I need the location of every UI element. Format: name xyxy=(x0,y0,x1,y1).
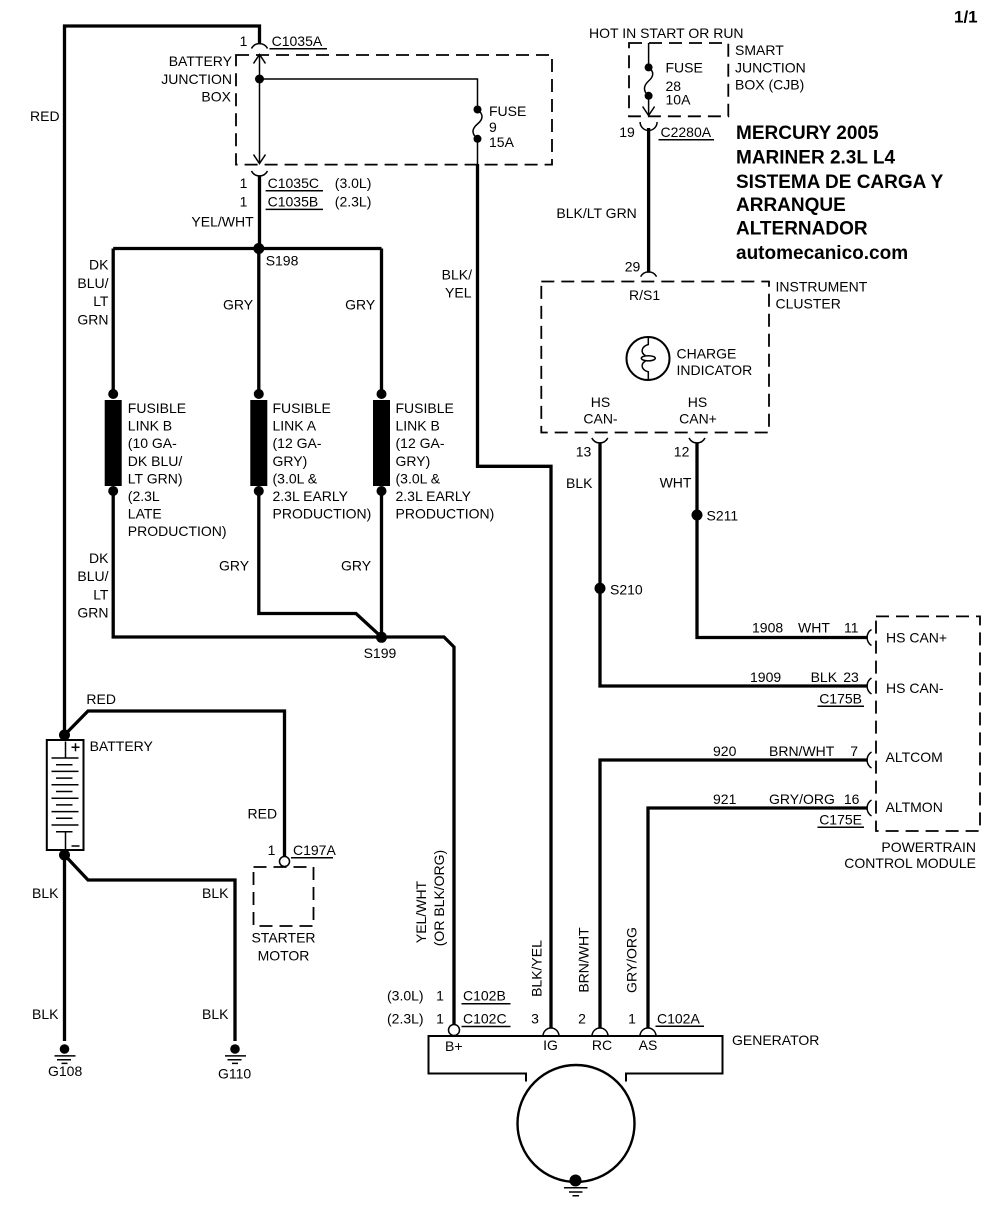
splice S210 xyxy=(595,583,606,594)
generator ground node xyxy=(570,1175,582,1187)
svg-text:1/1: 1/1 xyxy=(954,8,978,27)
svg-text:STARTER: STARTER xyxy=(251,930,315,946)
svg-text:1: 1 xyxy=(240,175,248,191)
connector B+ circle xyxy=(449,1025,460,1036)
svg-text:POWERTRAIN: POWERTRAIN xyxy=(881,839,976,855)
svg-text:RC: RC xyxy=(592,1037,612,1053)
svg-text:2.3L EARLY: 2.3L EARLY xyxy=(396,488,472,504)
svg-text:HS CAN+: HS CAN+ xyxy=(886,630,947,646)
svg-text:1: 1 xyxy=(436,988,444,1004)
svg-text:C1035A: C1035A xyxy=(272,33,323,49)
wire into fuse 28 xyxy=(648,43,650,67)
svg-text:S198: S198 xyxy=(266,252,299,268)
svg-text:9: 9 xyxy=(489,119,497,135)
generator pin RC arc xyxy=(592,1028,608,1036)
wire mid link to S199 xyxy=(259,491,382,637)
svg-text:(2.3L: (2.3L xyxy=(128,488,160,504)
svg-text:GRY: GRY xyxy=(219,558,250,574)
svg-text:AS: AS xyxy=(639,1037,658,1053)
svg-text:920: 920 xyxy=(713,743,737,759)
battery junction box xyxy=(236,55,552,165)
svg-text:12: 12 xyxy=(674,444,690,460)
svg-text:BLK/LT GRN: BLK/LT GRN xyxy=(556,205,636,221)
node junction in BJB xyxy=(255,75,264,84)
svg-text:19: 19 xyxy=(619,124,635,140)
svg-text:LINK B: LINK B xyxy=(128,418,172,434)
wire left branch DK BLU to fusible link B xyxy=(112,249,115,395)
svg-text:RED: RED xyxy=(86,691,116,707)
svg-text:13: 13 xyxy=(576,444,592,460)
powertrain control module box xyxy=(876,616,980,831)
connector C2280A arc xyxy=(640,122,657,131)
battery plus terminal xyxy=(72,743,80,751)
svg-text:GRN: GRN xyxy=(77,311,108,327)
svg-text:1: 1 xyxy=(240,33,248,49)
svg-text:SISTEMA DE CARGA Y: SISTEMA DE CARGA Y xyxy=(736,172,944,193)
svg-text:GENERATOR: GENERATOR xyxy=(732,1032,819,1048)
svg-text:C1035C: C1035C xyxy=(268,175,319,191)
battery positive node xyxy=(59,730,70,741)
svg-text:BLK: BLK xyxy=(202,885,229,901)
svg-text:BLU/: BLU/ xyxy=(77,568,108,584)
svg-text:CHARGE: CHARGE xyxy=(677,346,737,362)
svg-text:HS: HS xyxy=(688,394,707,410)
PCM pin 16 arc xyxy=(867,800,871,816)
svg-text:DK: DK xyxy=(89,257,109,273)
svg-text:RED: RED xyxy=(248,806,278,822)
ground G110 xyxy=(230,1044,240,1054)
svg-text:FUSIBLE: FUSIBLE xyxy=(128,400,186,416)
ground at generator xyxy=(564,1188,588,1196)
svg-text:(2.3L): (2.3L) xyxy=(335,194,372,210)
svg-text:(3.0L): (3.0L) xyxy=(387,988,424,1004)
svg-text:C2280A: C2280A xyxy=(661,124,712,140)
PCM pin 23 arc xyxy=(867,678,871,694)
svg-text:PRODUCTION): PRODUCTION) xyxy=(273,506,372,522)
PCM pin 7 arc xyxy=(867,752,871,768)
svg-text:LINK A: LINK A xyxy=(273,418,317,434)
svg-text:921: 921 xyxy=(713,791,737,807)
svg-text:HOT IN START OR RUN: HOT IN START OR RUN xyxy=(589,25,744,41)
svg-text:LT: LT xyxy=(93,293,109,309)
svg-text:CLUSTER: CLUSTER xyxy=(776,296,841,312)
svg-text:C197A: C197A xyxy=(293,842,336,858)
svg-text:SMART: SMART xyxy=(735,42,784,58)
generator body circle xyxy=(518,1065,635,1182)
svg-text:1: 1 xyxy=(268,842,276,858)
svg-text:INDICATOR: INDICATOR xyxy=(677,362,753,378)
fuse F28 10A xyxy=(645,63,653,71)
svg-text:CONTROL MODULE: CONTROL MODULE xyxy=(844,855,976,871)
svg-text:GRY: GRY xyxy=(341,558,372,574)
svg-text:S210: S210 xyxy=(610,582,643,598)
svg-text:BRN/WHT: BRN/WHT xyxy=(769,743,835,759)
svg-text:BATTERY: BATTERY xyxy=(169,53,233,69)
fusible link B (right) xyxy=(377,389,387,399)
svg-text:MARINER 2.3L L4: MARINER 2.3L L4 xyxy=(736,148,896,169)
svg-text:CAN+: CAN+ xyxy=(679,410,717,426)
svg-text:FUSIBLE: FUSIBLE xyxy=(396,400,454,416)
svg-text:(OR BLK/ORG): (OR BLK/ORG) xyxy=(431,850,447,946)
wire left link to S199 bus xyxy=(113,491,454,1025)
wire BLK/YEL from fuse 9 to generator IG xyxy=(477,139,479,165)
svg-text:C175E: C175E xyxy=(819,812,862,828)
svg-text:FUSE: FUSE xyxy=(666,60,703,76)
svg-text:BRN/WHT: BRN/WHT xyxy=(576,927,592,993)
generator box xyxy=(429,1036,723,1082)
instrument cluster box xyxy=(541,282,769,433)
wire BLK/LT GRN fuse 28 to cluster xyxy=(647,128,650,273)
svg-text:GRY/ORG: GRY/ORG xyxy=(769,791,835,807)
battery negative node xyxy=(59,850,70,861)
svg-text:WHT: WHT xyxy=(660,475,692,491)
smart junction box xyxy=(629,43,728,116)
svg-text:FUSE: FUSE xyxy=(489,103,526,119)
svg-text:ALTCOM: ALTCOM xyxy=(886,749,943,765)
connector C1035C arc xyxy=(252,171,268,176)
svg-text:GRY: GRY xyxy=(223,297,254,313)
svg-text:BLU/: BLU/ xyxy=(77,275,108,291)
fuse F9 15A xyxy=(474,106,482,114)
svg-text:INSTRUMENT: INSTRUMENT xyxy=(776,279,868,295)
svg-text:G108: G108 xyxy=(48,1063,82,1079)
splice S198 xyxy=(253,243,264,254)
svg-text:2.3L EARLY: 2.3L EARLY xyxy=(273,488,349,504)
svg-text:(2.3L): (2.3L) xyxy=(387,1011,424,1027)
svg-text:LINK B: LINK B xyxy=(396,418,440,434)
svg-text:15A: 15A xyxy=(489,134,515,150)
svg-text:YEL: YEL xyxy=(445,285,472,301)
svg-text:MERCURY 2005: MERCURY 2005 xyxy=(736,123,879,144)
svg-text:JUNCTION: JUNCTION xyxy=(735,59,806,75)
svg-text:S199: S199 xyxy=(364,645,397,661)
wire RED battery feed top-left xyxy=(65,26,260,736)
svg-text:automecanico.com: automecanico.com xyxy=(736,243,908,264)
svg-text:FUSIBLE: FUSIBLE xyxy=(273,400,331,416)
ground G108 xyxy=(60,1044,70,1054)
svg-text:GRY: GRY xyxy=(345,297,376,313)
svg-text:RED: RED xyxy=(30,108,60,124)
svg-text:C102A: C102A xyxy=(657,1011,700,1027)
connector R/S1 arc at cluster top xyxy=(641,272,657,277)
wire BLK pin13 to PCM pin 23 xyxy=(600,444,867,687)
svg-text:PRODUCTION): PRODUCTION) xyxy=(128,523,227,539)
svg-text:HS CAN-: HS CAN- xyxy=(886,680,944,696)
svg-text:(12 GA-: (12 GA- xyxy=(396,435,445,451)
svg-text:YEL/WHT: YEL/WHT xyxy=(413,880,429,943)
svg-text:IG: IG xyxy=(543,1037,558,1053)
svg-text:(3.0L): (3.0L) xyxy=(335,175,372,191)
svg-text:B+: B+ xyxy=(445,1038,463,1054)
svg-text:(3.0L &: (3.0L & xyxy=(273,470,318,486)
svg-text:16: 16 xyxy=(844,791,860,807)
svg-text:BLK/: BLK/ xyxy=(442,267,472,283)
svg-text:GRN: GRN xyxy=(77,605,108,621)
svg-text:DK BLU/: DK BLU/ xyxy=(128,453,183,469)
svg-text:CAN-: CAN- xyxy=(583,410,618,426)
svg-text:BLK: BLK xyxy=(811,669,838,685)
svg-text:BLK: BLK xyxy=(566,475,593,491)
svg-text:ALTERNADOR: ALTERNADOR xyxy=(736,219,868,240)
svg-text:BLK: BLK xyxy=(32,1006,59,1022)
wire GRY/ORG PCM pin 16 to generator AS xyxy=(648,808,867,1029)
wire S198 bus xyxy=(113,247,381,250)
svg-text:1: 1 xyxy=(628,1011,636,1027)
svg-text:23: 23 xyxy=(843,669,859,685)
svg-text:GRY): GRY) xyxy=(273,453,308,469)
svg-text:(3.0L &: (3.0L & xyxy=(396,470,441,486)
svg-text:DK: DK xyxy=(89,550,109,566)
svg-text:BLK: BLK xyxy=(202,1006,229,1022)
wire BRN/WHT PCM pin 7 to generator RC xyxy=(600,760,867,1029)
wire BJB internal horizontal xyxy=(260,79,478,110)
svg-text:1: 1 xyxy=(436,1011,444,1027)
connector pin 13 arc xyxy=(592,438,608,443)
svg-text:YEL/WHT: YEL/WHT xyxy=(191,214,254,230)
svg-text:ALTMON: ALTMON xyxy=(886,799,943,815)
svg-text:G110: G110 xyxy=(218,1066,251,1082)
connector C1035A arc xyxy=(252,44,268,49)
starter motor M1 xyxy=(254,867,314,926)
svg-text:29: 29 xyxy=(625,259,641,275)
generator pin IG arc xyxy=(543,1028,559,1036)
connector C197A circle xyxy=(280,857,290,867)
svg-text:BATTERY: BATTERY xyxy=(90,738,154,754)
svg-text:7: 7 xyxy=(850,743,858,759)
generator pin AS arc xyxy=(640,1028,656,1036)
svg-text:BLK: BLK xyxy=(32,885,59,901)
wire WHT pin12 to PCM pin 11 xyxy=(697,444,867,638)
svg-text:1909: 1909 xyxy=(750,669,781,685)
svg-text:C175B: C175B xyxy=(819,691,862,707)
svg-text:HS: HS xyxy=(591,394,610,410)
svg-text:C102B: C102B xyxy=(463,988,506,1004)
wire mid branch GRY xyxy=(257,249,260,395)
svg-text:BOX: BOX xyxy=(201,89,231,105)
svg-text:C1035B: C1035B xyxy=(268,194,319,210)
svg-text:BLK/YEL: BLK/YEL xyxy=(529,940,545,997)
svg-text:LT: LT xyxy=(93,586,109,602)
svg-text:R/S1: R/S1 xyxy=(629,287,660,303)
svg-text:LT GRN): LT GRN) xyxy=(128,470,183,486)
svg-text:C102C: C102C xyxy=(463,1011,507,1027)
wire RED battery positive jumper to starter xyxy=(65,711,285,857)
svg-text:LATE: LATE xyxy=(128,506,162,522)
fusible link A (middle) xyxy=(254,389,264,399)
svg-text:WHT: WHT xyxy=(798,620,830,636)
connector pin 12 arc xyxy=(689,438,705,443)
battery minus terminal xyxy=(72,845,80,847)
svg-text:S211: S211 xyxy=(707,508,739,524)
svg-text:11: 11 xyxy=(844,620,859,636)
svg-text:1: 1 xyxy=(240,194,248,210)
svg-text:GRY): GRY) xyxy=(396,453,431,469)
svg-text:ARRANQUE: ARRANQUE xyxy=(736,195,846,216)
wire BLK battery negative to G110 xyxy=(65,855,236,1041)
svg-text:PRODUCTION): PRODUCTION) xyxy=(396,506,495,522)
svg-text:1908: 1908 xyxy=(752,620,783,636)
battery BAT1 xyxy=(47,740,84,850)
wire YEL/WHT to S198 xyxy=(258,176,261,251)
fusible link B (left) xyxy=(108,389,118,399)
svg-text:MOTOR: MOTOR xyxy=(258,948,310,964)
splice S199 xyxy=(376,632,387,643)
svg-text:3: 3 xyxy=(531,1011,539,1027)
svg-text:10A: 10A xyxy=(666,91,692,107)
wire internal BJB vertical with arrows xyxy=(259,54,261,164)
svg-text:(10 GA-: (10 GA- xyxy=(128,435,177,451)
svg-text:2: 2 xyxy=(578,1011,586,1027)
wire right branch GRY xyxy=(380,249,383,395)
PCM pin 11 arc xyxy=(867,630,871,646)
wire right link to S199 xyxy=(380,491,383,637)
wire fuse 28 to C2280A with arrow xyxy=(648,96,650,115)
svg-text:BOX (CJB): BOX (CJB) xyxy=(735,77,804,93)
svg-text:JUNCTION: JUNCTION xyxy=(161,71,232,87)
wire BLK battery negative to G108 xyxy=(63,855,66,1041)
splice S211 xyxy=(692,510,703,521)
svg-text:(12 GA-: (12 GA- xyxy=(273,435,322,451)
svg-text:GRY/ORG: GRY/ORG xyxy=(624,927,640,993)
lamp charge indicator xyxy=(627,337,670,380)
